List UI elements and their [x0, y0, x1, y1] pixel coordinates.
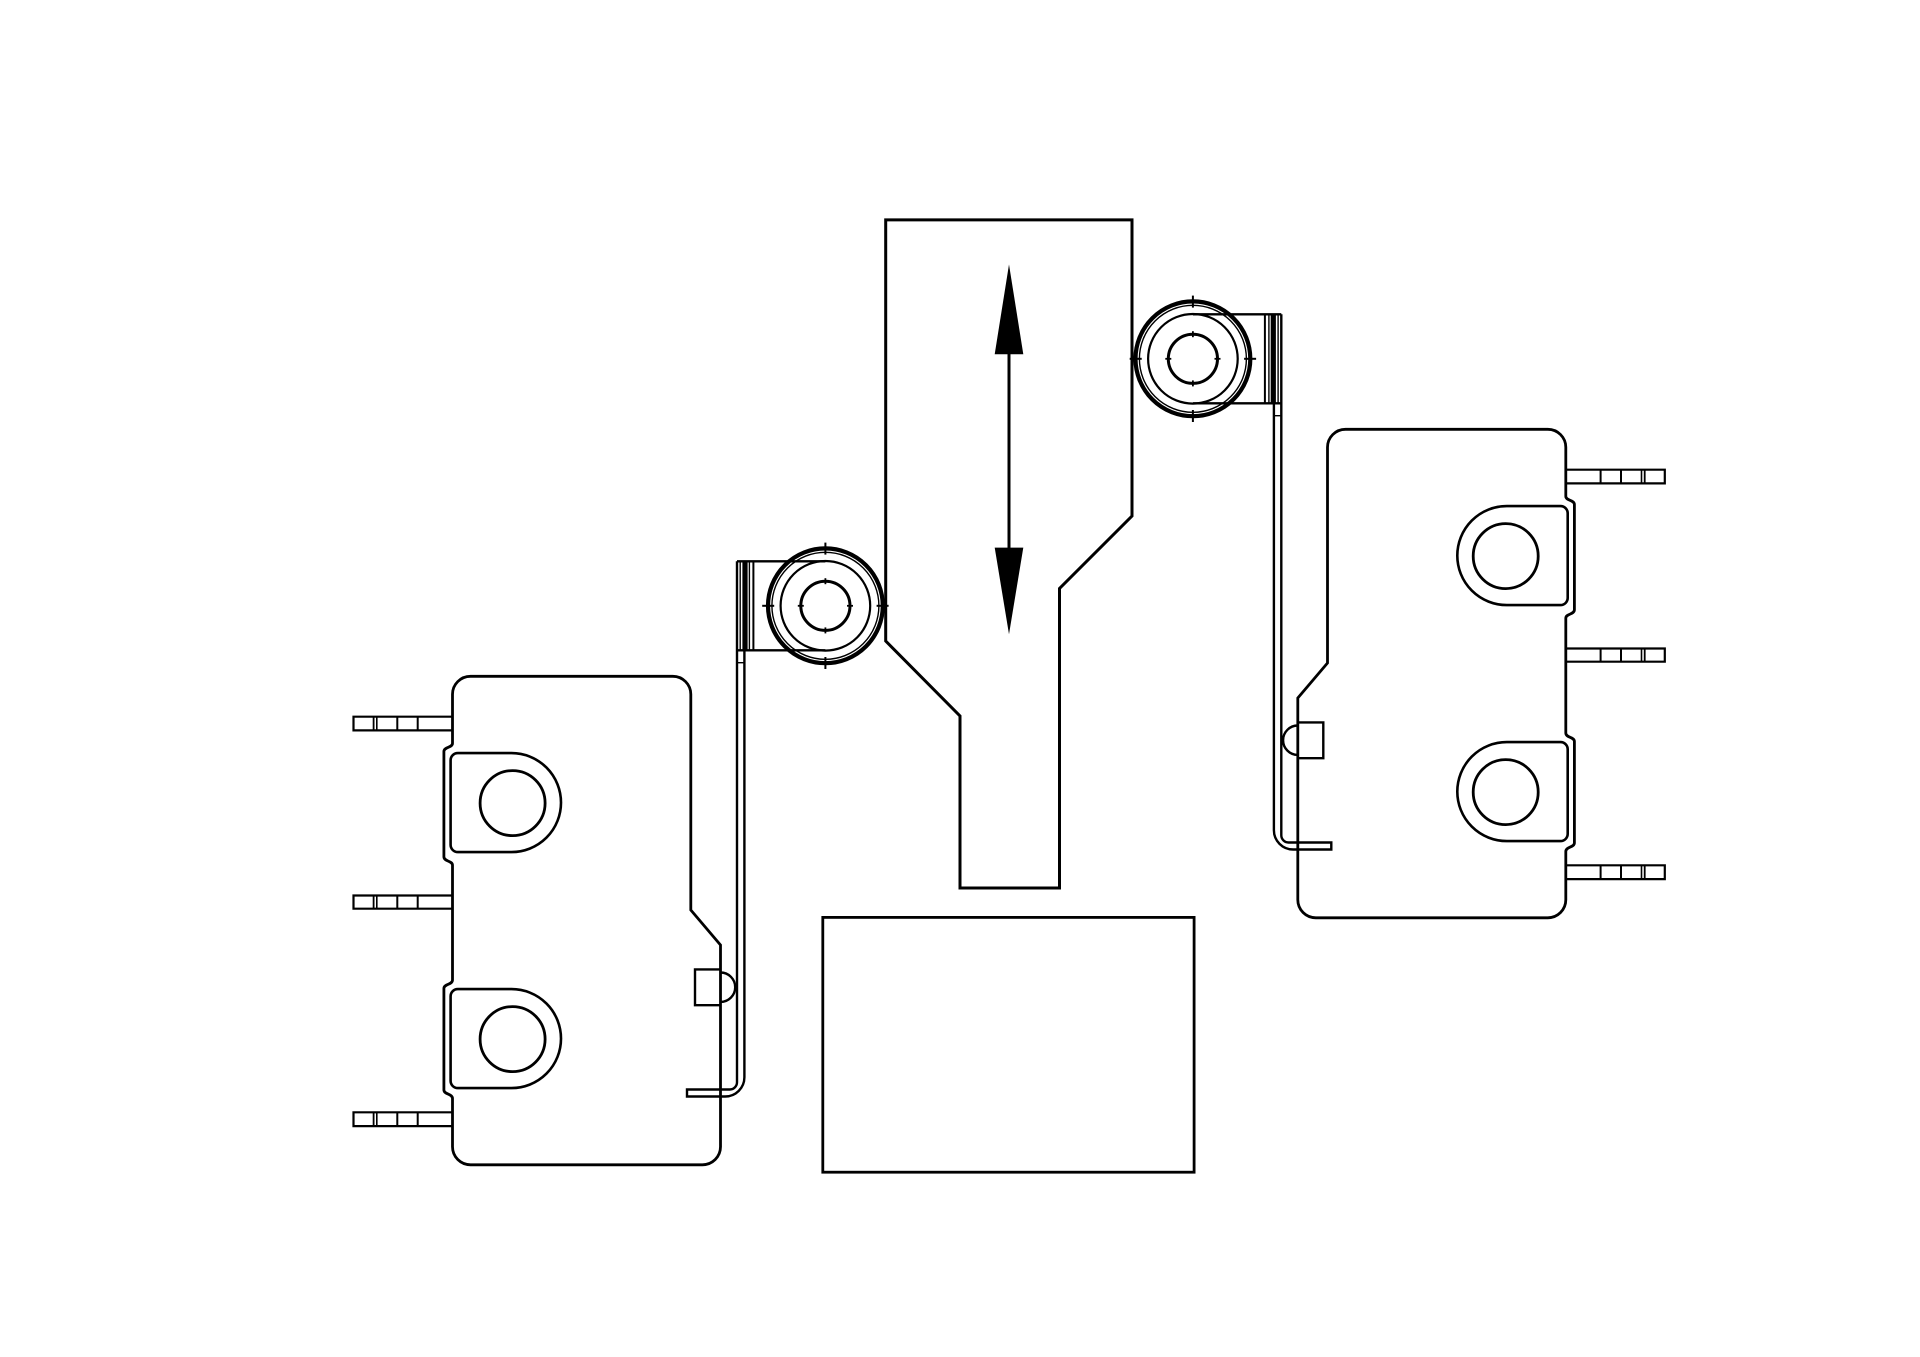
- roller R1 outer ring: [768, 548, 883, 663]
- roller R2 quadrant ticks: [1130, 296, 1256, 422]
- SW2 terminal pin 1: [1566, 470, 1665, 484]
- base block: [823, 917, 1194, 1172]
- motion arrow head up: [995, 265, 1024, 355]
- SW2 mounting hole bottom: [1473, 760, 1538, 825]
- SW1 mounting hole top: [480, 771, 545, 836]
- SW2 lever bend line: [1274, 415, 1281, 417]
- roller R1 hub circle: [781, 561, 871, 651]
- SW2 roller bracket: [1193, 314, 1281, 403]
- microswitch SW1 body outline: [444, 676, 721, 1165]
- SW1 lever bend line: [737, 662, 744, 664]
- SW2 mounting boss top: [1457, 506, 1567, 605]
- SW1 terminal pin 1: [354, 717, 453, 731]
- SW1 roller bracket: [737, 561, 825, 650]
- motion arrow shaft: [1008, 350, 1011, 552]
- SW1 terminal pin 2: [354, 896, 453, 909]
- SW2 terminal pin 2: [1566, 649, 1665, 662]
- SW1 mounting boss top: [451, 753, 561, 852]
- roller R2 rim line: [1139, 305, 1246, 412]
- left switch assembly: [354, 543, 889, 1165]
- microswitch SW2 body outline: [1298, 429, 1575, 918]
- SW2 plunger button: [1283, 722, 1323, 758]
- SW2 terminal pin 3: [1566, 865, 1665, 879]
- roller R2 outer ring: [1136, 301, 1251, 416]
- motion arrow head down: [995, 548, 1024, 635]
- cam plunger body: [886, 220, 1132, 888]
- SW1 mounting boss bottom: [451, 989, 561, 1088]
- SW2 mounting hole top: [1473, 524, 1538, 589]
- roller R2 hub circle: [1148, 314, 1238, 404]
- roller R1 axle bore: [801, 581, 850, 630]
- SW2 roller lever arm: [1274, 314, 1331, 849]
- SW1 roller lever arm: [687, 561, 744, 1096]
- SW1 mounting hole bottom: [480, 1007, 545, 1072]
- right switch assembly (mirrored): [1130, 296, 1665, 918]
- SW1 plunger button: [695, 969, 735, 1005]
- SW1 terminal pin 3: [354, 1112, 453, 1126]
- roller R2 axle bore: [1168, 334, 1217, 383]
- SW2 mounting boss bottom: [1457, 742, 1567, 841]
- roller R1 rim line: [772, 552, 879, 659]
- roller R1 quadrant ticks: [762, 543, 888, 669]
